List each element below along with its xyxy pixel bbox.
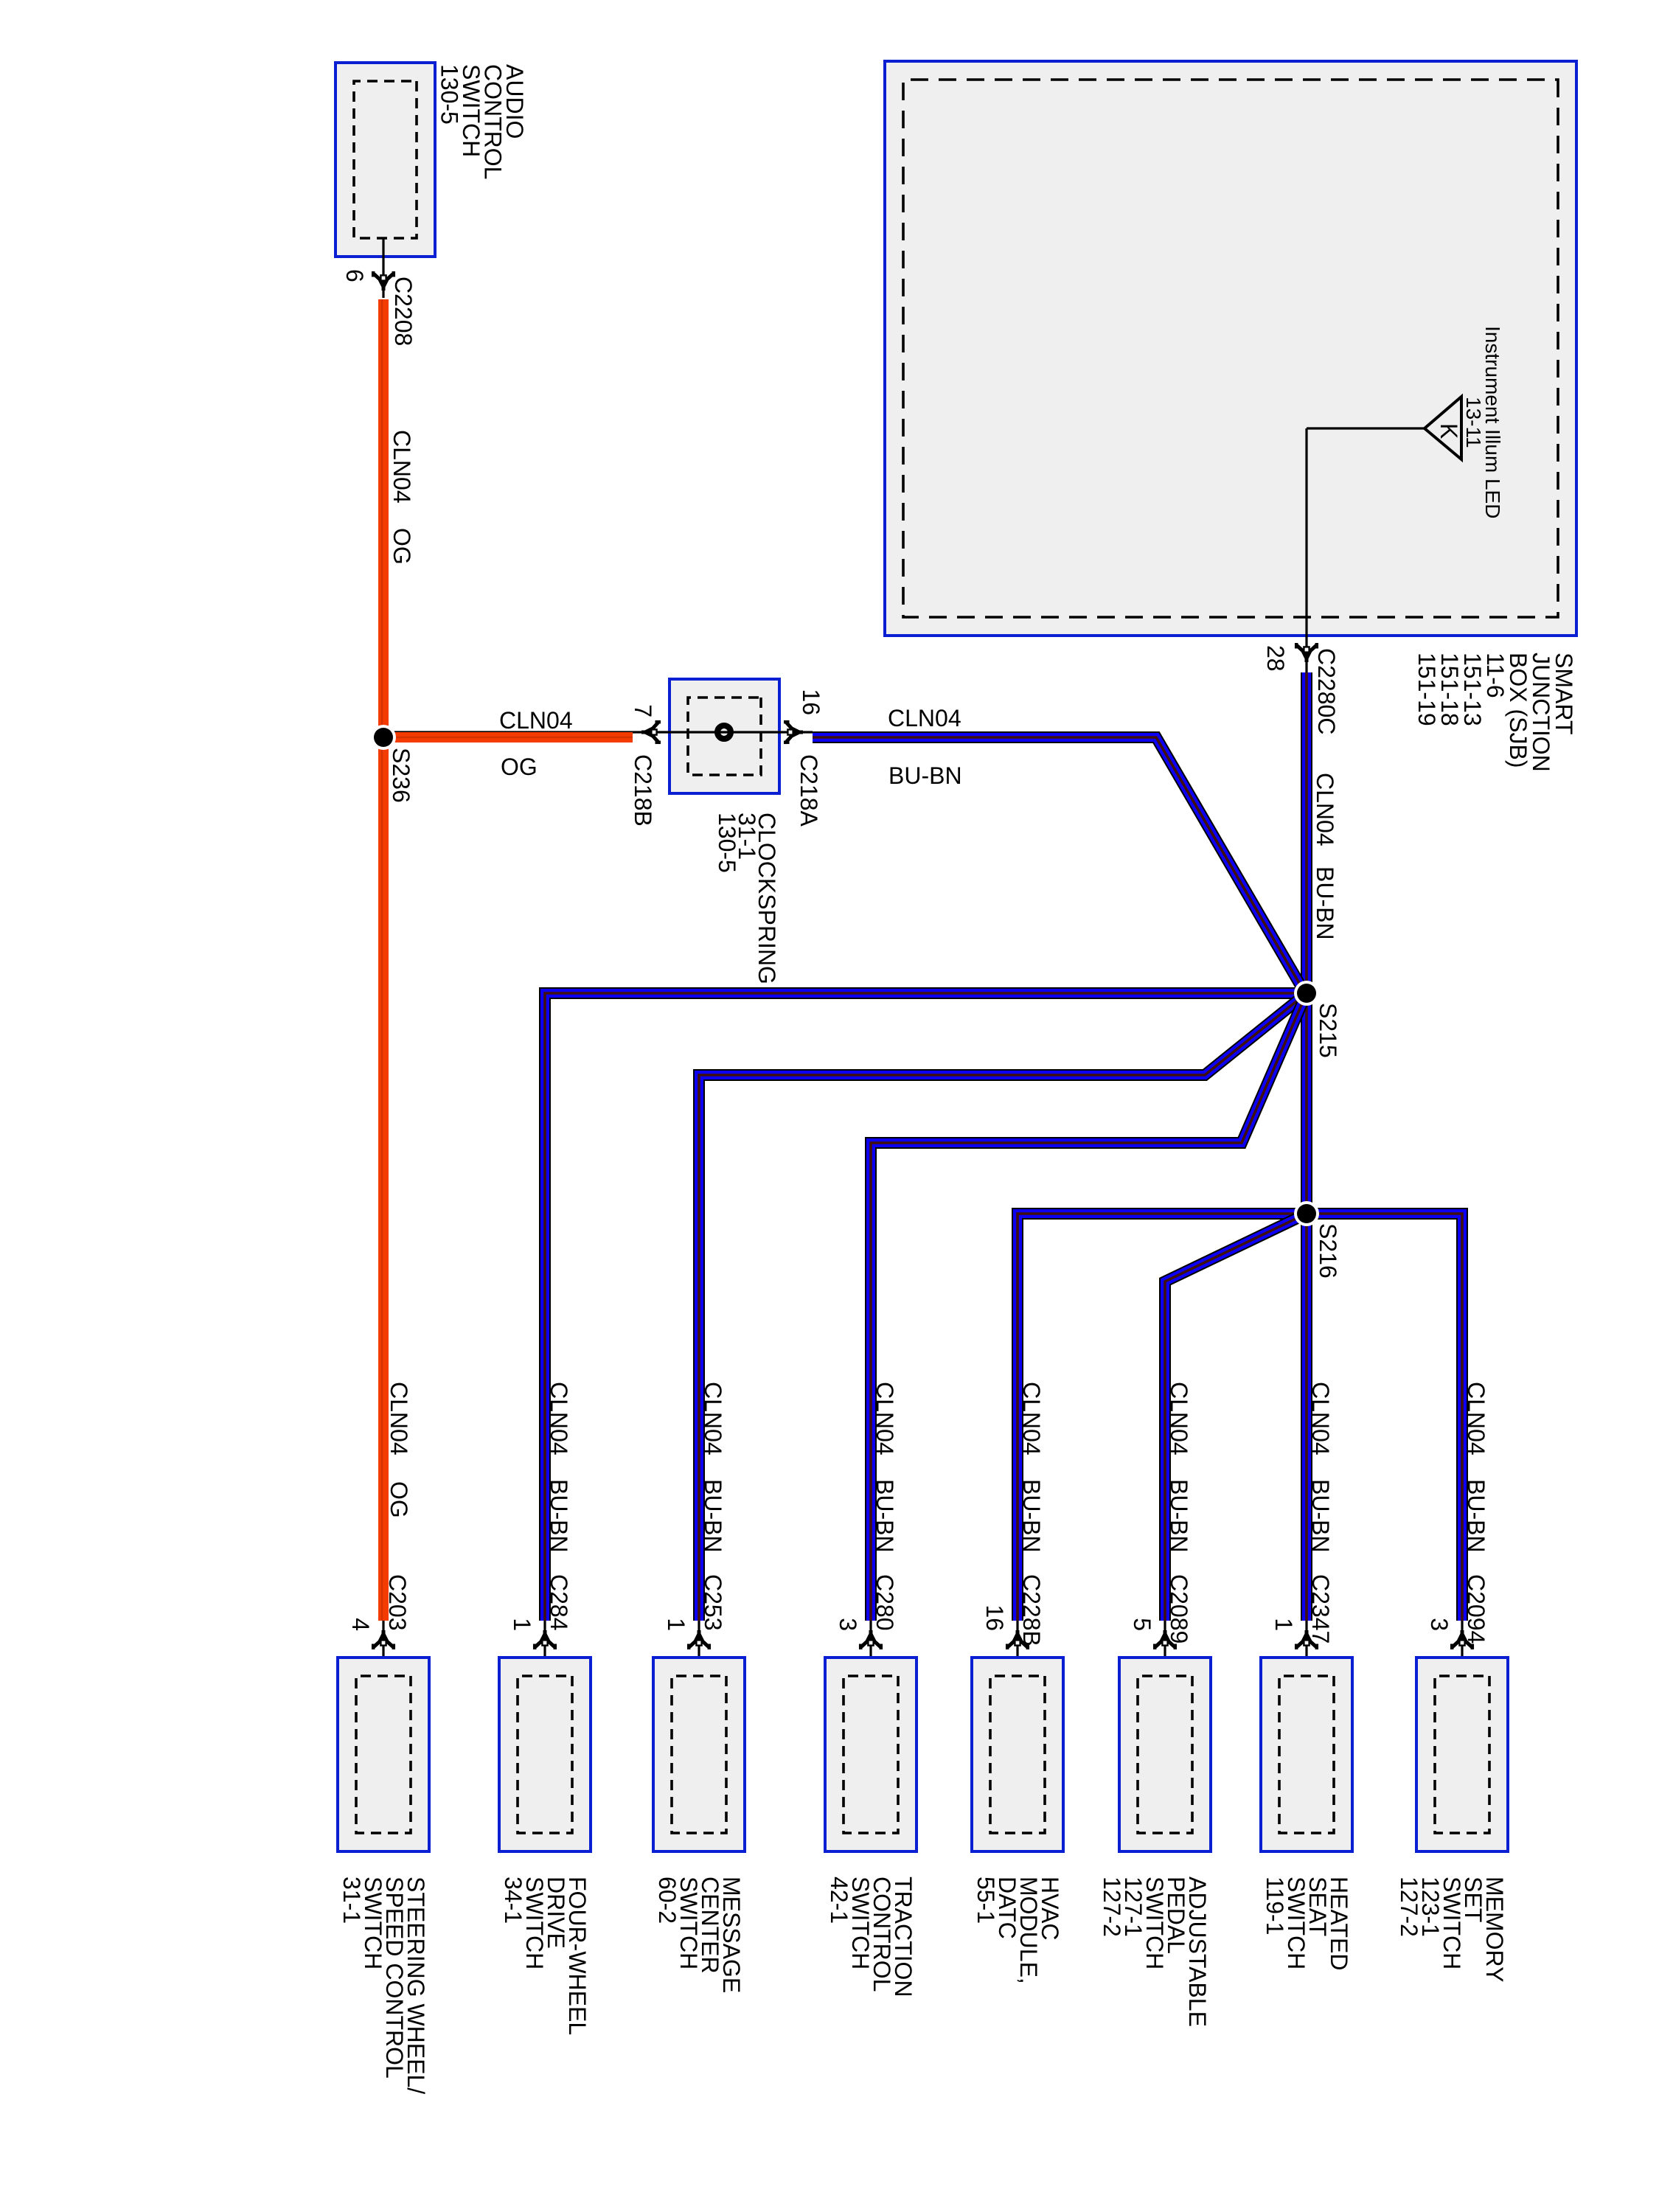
connector symbol C218B <box>641 722 661 742</box>
connector symbol C218A <box>784 722 803 742</box>
svg-text:CLN04: CLN04 <box>888 705 961 731</box>
svg-text:C228B: C228B <box>1018 1574 1045 1646</box>
MESSAGE CENTER SWITCH 60-2 box <box>653 1658 745 1851</box>
svg-text:28: 28 <box>1262 645 1289 672</box>
svg-text:CLN04: CLN04 <box>700 1382 726 1455</box>
svg-text:CLN04: CLN04 <box>499 707 573 734</box>
svg-text:BU-BN: BU-BN <box>872 1479 898 1553</box>
svg-text:C203: C203 <box>384 1574 411 1631</box>
wire lead into C280 box <box>869 1621 872 1676</box>
connector symbol C2347 <box>1296 1630 1317 1649</box>
connector symbol C2208 <box>373 271 394 291</box>
svg-text:BU-BN: BU-BN <box>546 1479 572 1553</box>
svg-text:16: 16 <box>981 1604 1008 1631</box>
svg-text:16: 16 <box>798 689 824 715</box>
svg-text:STEERING WHEEL/SPEED CONTROLSW: STEERING WHEEL/SPEED CONTROLSWITCH31-1 <box>338 1877 429 2094</box>
HVAC MODULE, DATC 55-1 box <box>972 1658 1063 1851</box>
svg-text:CLN04: CLN04 <box>1307 1382 1334 1455</box>
svg-text:CLN04: CLN04 <box>1463 1382 1489 1455</box>
FOUR-WHEEL DRIVE SWITCH 34-1 box <box>499 1658 591 1851</box>
wire S215 to C284 (four-wheel drive) (CLN04 BU-BN) <box>545 993 1307 1621</box>
wire LED cathode lead (vertical) <box>1307 427 1426 429</box>
LED D1 Instrument Illum LED <box>1425 397 1462 459</box>
svg-text:3: 3 <box>1426 1618 1453 1631</box>
connector symbol C284 <box>535 1630 555 1649</box>
svg-text:C2280C: C2280C <box>1313 648 1340 734</box>
svg-text:3: 3 <box>835 1618 861 1631</box>
MEMORY SET SWITCH 123-1 127-2 box <box>1416 1658 1508 1851</box>
wire S216 to C2094 (memory set) (CLN04 BU-BN) <box>1307 1214 1462 1621</box>
svg-text:C284: C284 <box>546 1574 572 1631</box>
wire trunk SJB to S215/S216/C2347 (CLN04 BU-BN) <box>1301 672 1312 1621</box>
wire S215 to C253 (message center) (CLN04 BU-BN) <box>699 993 1307 1621</box>
Smart Junction Box (SJB) <box>885 61 1576 636</box>
svg-text:6: 6 <box>341 269 368 282</box>
wire S216 to C2089 (adjustable pedal) (CLN04 BU-BN) <box>1165 1214 1307 1621</box>
svg-text:HEATEDSEATSWITCH119-1: HEATEDSEATSWITCH119-1 <box>1262 1877 1352 1970</box>
connector symbol C2280C <box>1296 643 1317 662</box>
wire S236 to C218B (CLN04 OG) <box>386 732 633 742</box>
svg-text:13-11: 13-11 <box>1462 397 1485 448</box>
HEATED SEAT SWITCH 119-1 box <box>1261 1658 1352 1851</box>
svg-text:C2089: C2089 <box>1166 1574 1192 1644</box>
wire lead into C253 box <box>698 1621 700 1676</box>
svg-text:FOUR-WHEELDRIVESWITCH34-1: FOUR-WHEELDRIVESWITCH34-1 <box>500 1877 591 2035</box>
svg-text:BU-BN: BU-BN <box>1312 866 1338 940</box>
svg-text:4: 4 <box>347 1618 374 1631</box>
svg-text:CLN04: CLN04 <box>1166 1382 1192 1455</box>
svg-text:MESSAGECENTERSWITCH60-2: MESSAGECENTERSWITCH60-2 <box>654 1877 745 1993</box>
svg-text:K: K <box>1436 423 1462 439</box>
svg-text:CLN04: CLN04 <box>386 1382 412 1455</box>
steering wheel/speed control switch box <box>338 1658 429 1851</box>
svg-text:BU-BN: BU-BN <box>888 762 962 789</box>
svg-text:C218B: C218B <box>630 754 656 827</box>
svg-text:S216: S216 <box>1315 1223 1341 1279</box>
wire lead into C2089 box <box>1164 1621 1166 1676</box>
wire C218A to S215 (CLN04 BU-BN) <box>813 737 1305 993</box>
svg-text:SMARTJUNCTIONBOX (SJB)11-6151-: SMARTJUNCTIONBOX (SJB)11-6151-13151-1815… <box>1413 653 1577 772</box>
svg-text:AUDIOCONTROLSWITCH130-5: AUDIOCONTROLSWITCH130-5 <box>437 64 529 179</box>
clockspring <box>669 679 779 793</box>
connector symbol C280 <box>860 1630 881 1649</box>
svg-text:BU-BN: BU-BN <box>1463 1479 1489 1553</box>
svg-text:1: 1 <box>1270 1618 1297 1631</box>
svg-text:MEMORYSETSWITCH123-1127-2: MEMORYSETSWITCH123-1127-2 <box>1396 1877 1508 1982</box>
wire lead into C228B box <box>1016 1621 1018 1676</box>
svg-text:CLN04: CLN04 <box>546 1382 572 1455</box>
svg-text:1: 1 <box>509 1618 535 1631</box>
wire S216 to C228B (HVAC) (CLN04 BU-BN) <box>1018 1214 1307 1621</box>
svg-text:CLN04: CLN04 <box>1312 773 1338 846</box>
TRACTION CONTROL SWITCH 42-1 box <box>825 1658 917 1851</box>
svg-text:5: 5 <box>1129 1618 1155 1631</box>
junction S215 <box>1294 981 1319 1006</box>
wire lead into C284 box <box>543 1621 546 1676</box>
svg-text:S215: S215 <box>1315 1003 1341 1058</box>
connector symbol C2089 <box>1155 1630 1175 1649</box>
svg-text:OG: OG <box>501 754 538 780</box>
svg-text:OG: OG <box>389 528 415 565</box>
svg-text:BU-BN: BU-BN <box>1018 1479 1045 1553</box>
wire lead into C203 box <box>382 1621 384 1676</box>
connector symbol C2094 <box>1452 1630 1472 1649</box>
svg-text:HVACMODULE,DATC55-1: HVACMODULE,DATC55-1 <box>973 1877 1063 1984</box>
svg-text:1: 1 <box>663 1618 689 1631</box>
junction S216 <box>1294 1201 1319 1226</box>
connector symbol C228B <box>1007 1630 1028 1649</box>
svg-text:CLN04: CLN04 <box>1018 1382 1045 1455</box>
wire audio switch lead <box>382 238 384 298</box>
ADJUSTABLE PEDAL SWITCH 127-1 127-2 box <box>1119 1658 1211 1851</box>
svg-text:BU-BN: BU-BN <box>1307 1479 1334 1553</box>
wire clockspring chain centerline <box>389 731 813 733</box>
svg-text:BU-BN: BU-BN <box>700 1479 726 1553</box>
connector symbol C203 <box>373 1630 394 1649</box>
svg-text:CLN04: CLN04 <box>389 430 415 504</box>
wire lead into C2347 box <box>1305 1621 1307 1676</box>
wire SJB internal wire to C2280C <box>1305 428 1307 680</box>
svg-text:BU-BN: BU-BN <box>1166 1479 1192 1553</box>
wire lead into C2094 box <box>1461 1621 1463 1676</box>
svg-text:C2208: C2208 <box>390 276 417 346</box>
audio control switch <box>335 63 435 257</box>
svg-text:C253: C253 <box>700 1574 726 1631</box>
wire S215 to C280 (traction control) (CLN04 BU-BN) <box>871 993 1307 1621</box>
svg-text:ADJUSTABLEPEDALSWITCH127-1127-: ADJUSTABLEPEDALSWITCH127-1127-2 <box>1099 1877 1211 2027</box>
svg-text:CLN04: CLN04 <box>872 1382 898 1455</box>
svg-text:C2347: C2347 <box>1307 1574 1334 1644</box>
svg-text:C280: C280 <box>872 1574 898 1631</box>
svg-text:OG: OG <box>386 1481 412 1518</box>
svg-text:TRACTIONCONTROLSWITCH42-1: TRACTIONCONTROLSWITCH42-1 <box>826 1877 917 1997</box>
connector symbol C253 <box>689 1630 709 1649</box>
svg-text:7: 7 <box>630 704 656 717</box>
wire C2208 to C203 (CLN04 OG) (CLN04 OG) <box>382 299 383 1621</box>
svg-text:C218A: C218A <box>796 754 822 827</box>
svg-text:CLOCKSPRING31-1130-5: CLOCKSPRING31-1130-5 <box>714 813 780 984</box>
clockspring coil symbol <box>717 726 731 739</box>
svg-text:C2094: C2094 <box>1463 1574 1489 1644</box>
svg-text:S236: S236 <box>388 748 414 803</box>
junction S236 <box>371 725 396 750</box>
